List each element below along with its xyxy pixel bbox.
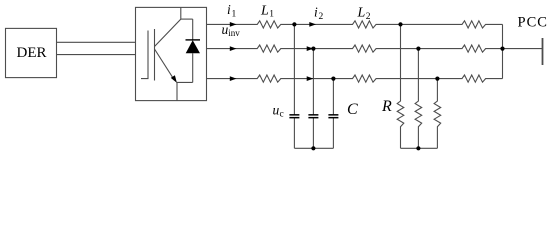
wire phase C with inductors (207, 75, 503, 82)
capacitor C3 bottom lead (332, 118, 334, 149)
arrow phase B (230, 46, 237, 51)
node PCC junction (500, 47, 504, 51)
wire collector to diode (181, 18, 193, 20)
wire capacitor bus (294, 147, 333, 149)
svg-text:2: 2 (366, 12, 371, 22)
capacitor C2 plates (308, 114, 318, 116)
transistor Q1 collector slant (155, 7, 181, 46)
wire phase B with inductors (207, 45, 503, 52)
node R3 on phase C (435, 77, 439, 81)
svg-text:u: u (273, 103, 280, 118)
PCC terminal bar (542, 38, 544, 65)
wire emitter node (177, 81, 193, 83)
arrow i2 phase A (309, 22, 316, 27)
transistor Q1 emitter slant (155, 49, 175, 80)
capacitor C2 top lead (312, 49, 314, 115)
svg-text:L: L (357, 6, 366, 21)
svg-text:c: c (280, 110, 284, 120)
node C1 on phase A (292, 22, 296, 26)
svg-text:R: R (381, 98, 392, 115)
diode D1 cathode lead (192, 19, 194, 40)
resistor R3 lead and zigzag (434, 79, 441, 149)
svg-text:C: C (347, 101, 358, 118)
svg-text:i: i (314, 4, 318, 19)
diode D1 triangle (186, 40, 200, 53)
node resistor bus (416, 146, 420, 150)
transistor Q1 gate lead (141, 31, 148, 79)
capacitor C3 plates (328, 114, 338, 116)
node R2 on phase B (416, 47, 420, 51)
wire DC link bottom (57, 54, 137, 56)
inverter U1 box (136, 7, 207, 100)
resistor R2 lead and zigzag (415, 49, 422, 149)
arrow phase C at C2 crossing (307, 76, 314, 81)
svg-text:L: L (260, 3, 269, 18)
svg-text:2: 2 (319, 12, 324, 22)
wire phase A with inductors (207, 21, 503, 28)
capacitor C1 plates (289, 114, 299, 116)
node C3 on phase C (331, 77, 335, 81)
node capacitor bus (311, 146, 315, 150)
wire to PCC (503, 48, 543, 50)
svg-text:inv: inv (228, 28, 240, 38)
diode D1 anode lead (192, 53, 194, 82)
node R1 on phase A (398, 22, 402, 26)
wire emitter down (176, 82, 178, 101)
capacitor C2 bottom lead (312, 118, 314, 149)
arrow phase C (230, 76, 237, 81)
capacitor C1 bottom lead (293, 118, 295, 149)
svg-text:DER: DER (17, 45, 47, 61)
DER box (6, 28, 57, 77)
resistor R1 lead and zigzag (397, 24, 404, 148)
svg-text:1: 1 (269, 10, 274, 20)
arrow phase B at C2 (307, 46, 314, 51)
svg-text:PCC: PCC (518, 14, 548, 30)
wire DC link top (57, 41, 137, 43)
capacitor C1 top lead (293, 24, 295, 114)
diode D1 cathode bar (186, 39, 201, 40)
svg-text:1: 1 (232, 10, 237, 20)
wire resistor bus (401, 147, 438, 149)
node C2 on phase B (311, 47, 315, 51)
transistor Q1 emitter arrowhead (171, 75, 177, 83)
capacitor C3 top lead (332, 79, 334, 115)
transistor Q1 main bar (154, 29, 156, 81)
svg-text:i: i (227, 2, 231, 17)
arrow i1 phase A (230, 22, 237, 27)
wire right bus (502, 24, 504, 78)
